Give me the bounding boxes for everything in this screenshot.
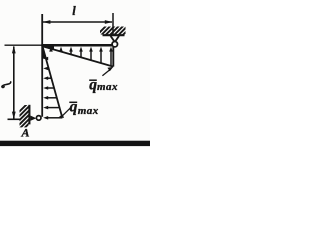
left dimension line: [8, 46, 21, 120]
column qmax leader arrow: [58, 108, 71, 118]
svg-text:max: max: [97, 81, 118, 93]
column load arrows: [43, 57, 62, 120]
column qmax label: [69, 99, 98, 117]
roller pin circle: [112, 42, 117, 47]
beam left extension line: [5, 44, 43, 46]
support link triangle: [111, 36, 115, 42]
bottom wall hatching: [19, 102, 30, 134]
beam: [41, 44, 112, 47]
svg-text:A: A: [20, 126, 29, 140]
label l left (rotated): [2, 82, 11, 88]
bottom wall face line: [28, 105, 30, 125]
svg-text:max: max: [78, 105, 99, 117]
beam load close line: [112, 47, 114, 67]
top-right support hatching: [97, 26, 132, 35]
svg-text:q: q: [89, 77, 97, 94]
column load envelope: [43, 46, 63, 117]
top dimension line: [43, 20, 113, 24]
pin support triangle: [31, 116, 37, 121]
beam qmax label: [89, 77, 118, 94]
beam load arrows: [49, 47, 113, 66]
right extension line: [112, 13, 114, 36]
pin circle: [36, 116, 41, 121]
column load corner wedge: [43, 46, 46, 58]
black bar: [0, 141, 150, 146]
beam load envelope: [43, 46, 114, 66]
beam load corner wedge: [43, 46, 55, 50]
column with top extension line: [41, 14, 43, 117]
beam qmax leader arrow: [102, 67, 113, 76]
svg-text:q: q: [70, 99, 78, 116]
top-right support plate: [103, 34, 125, 36]
svg-text:l: l: [72, 4, 76, 18]
